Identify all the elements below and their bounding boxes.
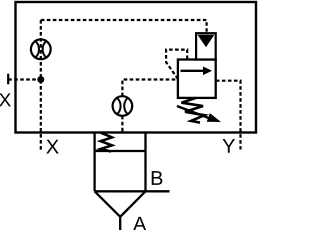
wire: port A line: [119, 217, 121, 230]
manifold block enclosure: [16, 2, 257, 133]
orifice Z1: [31, 39, 51, 59]
spring of cartridge valve: [101, 133, 113, 152]
wire: orifice Z2 down to cartridge spring chamber: [121, 116, 123, 132]
label B: [152, 171, 163, 185]
wire: vent loop on pilot valve: [166, 50, 187, 79]
proportional solenoid U1: [196, 33, 216, 59]
pilot relief valve V1 flow arrow: [181, 67, 213, 76]
cartridge poppet seat and port B line: [95, 191, 170, 217]
node: pilot junction dot: [37, 76, 44, 83]
wire: orifice Z2 riser to pilot valve inlet: [122, 80, 177, 97]
label X (bottom port): [46, 140, 58, 154]
wire: left pilot riser through orifice and node to port X below: [40, 20, 42, 150]
cartridge poppet valve body: [95, 133, 146, 192]
wire: port X stub to junction: [8, 78, 41, 80]
port X plug tick: [7, 74, 9, 85]
pilot relief valve V1 body: [178, 60, 216, 98]
label X (left port): [0, 93, 11, 106]
label A: [133, 217, 146, 231]
spring of pilot relief valve: [182, 98, 205, 123]
wire: top pilot line from orifice riser to solenoid valve: [41, 20, 207, 33]
label Y: [223, 139, 235, 153]
orifice Z2: [113, 96, 133, 116]
adjustment arrow of pilot relief valve: [177, 106, 221, 122]
wire: pilot valve outlet to port Y: [216, 81, 241, 150]
